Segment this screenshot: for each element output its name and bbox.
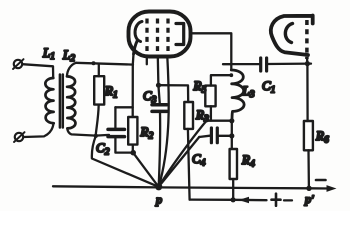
wire bottom rail: [53, 186, 330, 188]
wire cathode lead down: [132, 53, 135, 118]
wire R5 top: [211, 75, 231, 85]
wire lead A grid2 down: [158, 57, 160, 105]
resistor R4: [230, 149, 237, 200]
wire terminal2 to L1 bottom: [24, 123, 54, 137]
tube V1 grid 1 (dashed): [145, 19, 148, 52]
wire node A to R3 top: [159, 85, 189, 102]
wire terminal1 to L1 top: [22, 64, 53, 78]
tube V1 grid 3 (dashed): [166, 19, 169, 52]
node rail-R1: [92, 61, 96, 65]
plus sign: [272, 194, 281, 206]
node p: [155, 183, 162, 190]
vacuum tube V2 envelope (partial): [271, 16, 313, 56]
node p prime: [306, 186, 311, 191]
wire V2 grid lead to node: [306, 58, 309, 64]
svg-text:C4: C4: [192, 151, 206, 169]
node V2 grid / C1: [305, 61, 310, 66]
inductor L3: [231, 70, 244, 121]
svg-text:L2: L2: [62, 47, 75, 64]
svg-text:R5: R5: [193, 78, 207, 96]
node R4 plus line: [231, 197, 236, 202]
node A junction: [156, 83, 161, 88]
svg-text:L1: L1: [42, 45, 55, 62]
wire diagonal C2R2 to node p: [133, 153, 158, 187]
resistor R3: [184, 102, 193, 200]
tube V1 grid 2 (dashed): [156, 19, 159, 52]
svg-text:R2: R2: [140, 124, 154, 142]
wire lead B grid3 to node p: [159, 57, 169, 187]
svg-text:R4: R4: [241, 152, 255, 170]
wire grid node down to R6: [306, 64, 309, 121]
terminal input bottom: [14, 132, 25, 142]
tube V1 cathode: [134, 22, 142, 55]
capacitor C4: [199, 128, 232, 143]
wire top rail: [76, 63, 133, 65]
capacitor C3: [152, 105, 167, 187]
inductor L1: [45, 78, 53, 123]
node R1-bottom junction: [94, 134, 98, 138]
resistor R5: [205, 86, 215, 121]
tube V2 cathode: [285, 24, 292, 43]
wire diagonal screen node to p: [159, 121, 207, 186]
wire C4 to node p: [159, 137, 199, 187]
node C2-R2 bottom: [130, 150, 136, 156]
wire diagonal junction to node p: [92, 136, 159, 187]
svg-text:C1: C1: [262, 78, 275, 96]
wire L2 bottom: [67, 128, 109, 135]
svg-text:R6: R6: [315, 128, 329, 146]
svg-text:C3: C3: [143, 88, 157, 106]
node C4 right: [229, 133, 234, 138]
terminal input top: [13, 59, 24, 69]
transformer core: [60, 75, 63, 128]
wire plus supply line: [190, 198, 292, 201]
svg-text:L3: L3: [242, 83, 255, 100]
wire L2 top to rail: [67, 63, 76, 77]
tube V2 grid (dashed): [305, 20, 309, 59]
capacitor C1: [223, 58, 311, 71]
inductor L2: [67, 76, 75, 128]
wire cathode branch to C2: [115, 106, 132, 108]
resistor R1: [94, 64, 104, 135]
wire V1 grid1 stub: [146, 57, 148, 65]
capacitor C2: [108, 107, 133, 152]
svg-text:C2: C2: [96, 140, 110, 158]
wire R5 bottom to L3 node: [206, 120, 231, 122]
svg-text:R1: R1: [104, 83, 118, 101]
rail arrowhead to minus: [327, 185, 337, 192]
node R5-anode: [229, 73, 233, 77]
plus line arrowhead: [239, 197, 249, 204]
node L3 bottom: [229, 118, 234, 123]
wire anode to L3 top: [191, 33, 232, 70]
vacuum tube V1 envelope: [129, 12, 191, 57]
wire L3 node down: [231, 121, 233, 149]
minus sign: [316, 179, 326, 182]
resistor R2: [128, 117, 137, 153]
tube V1 anode: [176, 24, 184, 45]
resistor R6: [304, 121, 313, 188]
svg-text:p: p: [155, 193, 162, 207]
svg-text:p′: p′: [304, 192, 314, 206]
